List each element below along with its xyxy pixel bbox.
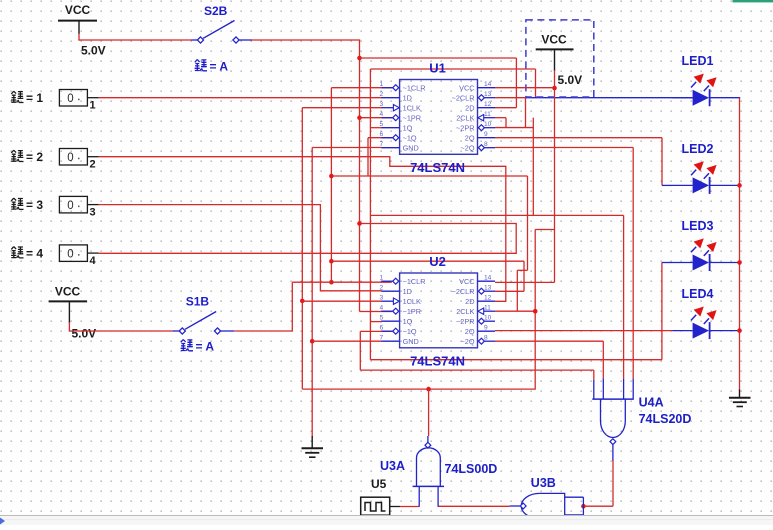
- wire LED3 anode blue: [662, 262, 673, 264]
- wire S2B net vertical: [359, 40, 361, 312]
- wire LED2 drop x662: [661, 138, 663, 186]
- wire U1 pin14 VCC: [495, 87, 555, 89]
- svg-text:~2Q: ~2Q: [461, 337, 475, 346]
- switch S1B: [173, 312, 234, 335]
- wire branch y176 to U2 2CLK route: [331, 175, 527, 177]
- wire into U2 pin13 ~2CLR: [495, 290, 524, 292]
- svg-text:0: 0: [67, 152, 73, 164]
- wire LED column to ground: [739, 98, 741, 391]
- svg-text:4: 4: [380, 111, 384, 118]
- svg-text:14: 14: [484, 81, 492, 88]
- svg-text:2: 2: [380, 285, 384, 292]
- svg-text:LED4: LED4: [682, 287, 714, 301]
- wire LED4 cathode blue: [711, 330, 740, 332]
- wire S1B vertical riser: [291, 282, 293, 331]
- wire to U3B inputs: [583, 505, 613, 507]
- svg-text:6: 6: [380, 131, 384, 138]
- IC U1 74LS74N body: [380, 80, 496, 155]
- junction LED3 cathode: [737, 260, 742, 265]
- wire into U2 pin14 VCC: [495, 281, 555, 283]
- svg-text:= A: = A: [196, 340, 215, 354]
- junction key4 / S2B preset net: [357, 221, 362, 226]
- svg-text:0: 0: [67, 249, 73, 261]
- svg-text:U4A: U4A: [639, 396, 664, 410]
- wire clear-net vertical x331: [330, 88, 332, 283]
- LED3: [673, 238, 717, 271]
- svg-text:5: 5: [380, 315, 384, 322]
- wire U2 pin7 GND: [312, 340, 382, 342]
- svg-text:3: 3: [90, 207, 96, 219]
- LED2: [673, 161, 717, 194]
- wire LED3 net long run: [370, 214, 623, 216]
- svg-text:2: 2: [380, 91, 384, 98]
- svg-text:~1CLR: ~1CLR: [403, 84, 426, 93]
- wire vertical x527: [527, 176, 529, 270]
- wire U4A in2 blue tail: [602, 378, 604, 398]
- wire key3 to U2 pin2 1D: [99, 205, 382, 291]
- key switch 键=1 interactive digital constant: [59, 90, 98, 107]
- wire vertical x524: [523, 261, 525, 291]
- svg-text:0: 0: [67, 200, 73, 212]
- power VCC1 5.0V symbol: [58, 21, 97, 34]
- wire clock net vertical x302: [301, 108, 303, 389]
- NAND gate U3A 74LS00D (points up): [413, 436, 445, 507]
- wire branch y261 to U2 ~2CLR: [331, 260, 524, 262]
- svg-text:13: 13: [484, 91, 492, 98]
- svg-text:LED1: LED1: [682, 54, 714, 68]
- wire vertical x517: [516, 270, 518, 311]
- junction clear net y261: [329, 259, 334, 264]
- wire S2B branch to U1 2D: [360, 57, 517, 59]
- wire x360 down: [359, 331, 361, 370]
- wire S2B to node: [252, 39, 361, 41]
- svg-text:11: 11: [484, 305, 491, 312]
- svg-text:0: 0: [67, 93, 73, 105]
- svg-text:U5: U5: [371, 477, 387, 491]
- svg-text:10: 10: [484, 315, 492, 322]
- svg-text:2CLK: 2CLK: [456, 114, 474, 123]
- junction clock net / U2 pin3: [300, 299, 305, 304]
- svg-text:12: 12: [484, 101, 492, 108]
- junction clear net / U2 pin1: [329, 280, 334, 285]
- svg-text:9: 9: [484, 325, 488, 332]
- svg-text:1: 1: [90, 100, 96, 112]
- wire U5 to U3A input: [400, 506, 420, 508]
- svg-text:~1Q: ~1Q: [403, 134, 417, 143]
- LED4: [673, 307, 717, 340]
- svg-text:1Q: 1Q: [403, 317, 413, 326]
- wire key4 to preset net: [99, 224, 517, 254]
- junction U3B input tie: [581, 504, 586, 509]
- wire into U1 pin12 2D: [495, 107, 516, 109]
- wire vertical x535 down to clock run: [534, 230, 536, 390]
- wire clock net to U3A output: [302, 388, 535, 390]
- svg-text:4: 4: [380, 305, 384, 312]
- svg-text:14: 14: [484, 275, 492, 282]
- wire LED3 column x662: [661, 263, 663, 360]
- svg-text:1: 1: [380, 275, 384, 282]
- key switch 键=4 interactive digital constant: [59, 245, 98, 262]
- wire x633 down to U4A in4: [632, 148, 634, 380]
- junction LED2 cathode: [737, 183, 742, 188]
- svg-text:2: 2: [90, 159, 96, 171]
- svg-text:VCC: VCC: [459, 277, 474, 286]
- key switch 键=3 interactive digital constant: [59, 196, 98, 213]
- wire U1 pin9 2Q to LED2: [495, 137, 662, 139]
- wire into U2 pin11 2CLK: [495, 310, 535, 312]
- junction ground net / U2 pin7: [310, 339, 315, 344]
- svg-text:74LS74N: 74LS74N: [410, 353, 465, 368]
- switch S2B: [192, 21, 253, 44]
- svg-text:6: 6: [380, 325, 384, 332]
- svg-text:~2PR: ~2PR: [456, 124, 474, 133]
- wire into U2 pin3 1CLK: [302, 300, 382, 302]
- NAND gate U3B 74LS00D (points left, inverter-tied): [510, 493, 584, 518]
- wire VCC2 jog: [535, 229, 554, 231]
- wire jog y270: [517, 269, 527, 271]
- wire U4A in1 blue tail: [593, 380, 595, 399]
- svg-text:74LS74N: 74LS74N: [410, 160, 465, 175]
- svg-text:U3B: U3B: [531, 476, 556, 490]
- svg-text:74LS20D: 74LS20D: [639, 412, 692, 426]
- LED1: [673, 74, 717, 107]
- wire vertical x370 Q chain: [369, 69, 371, 360]
- wire to U1 pin4 ~1PR: [360, 117, 392, 119]
- ground symbol (right): [729, 390, 751, 407]
- wire U4A output down: [612, 460, 614, 506]
- wire pin10 row jog: [495, 127, 533, 129]
- svg-text:5.0V: 5.0V: [72, 327, 97, 341]
- svg-text:= 1: = 1: [26, 91, 43, 105]
- wire U3B output to U3A input: [438, 505, 510, 507]
- svg-text:12: 12: [484, 295, 492, 302]
- svg-text:2D: 2D: [465, 297, 474, 306]
- wire VCC1 to S2B: [78, 39, 192, 41]
- junction U3A output / clock net: [426, 387, 431, 392]
- wire ground net vertical: [311, 148, 313, 438]
- svg-text:= A: = A: [210, 60, 229, 74]
- junction S2B net / U1 pin4: [357, 115, 362, 120]
- wire U1 pin7 GND: [312, 147, 382, 149]
- svg-text:~1PR: ~1PR: [403, 307, 421, 316]
- wire U3A output vertical red: [428, 389, 430, 436]
- wire VCC2 down run: [554, 70, 556, 282]
- junction S2B net / 2D branch: [357, 56, 362, 61]
- wire key2 to U2 pin12 2D: [99, 157, 506, 302]
- wire LED1 net drop: [525, 98, 527, 128]
- svg-text:~2CLR: ~2CLR: [452, 94, 475, 103]
- svg-text:S1B: S1B: [186, 295, 210, 309]
- svg-text:LED2: LED2: [682, 142, 714, 156]
- junction LED4 cathode: [737, 328, 742, 333]
- junction VCC2 / U1 pin14: [552, 86, 557, 91]
- svg-text:VCC: VCC: [459, 84, 474, 93]
- svg-text:5: 5: [380, 121, 384, 128]
- svg-text:5.0V: 5.0V: [81, 44, 106, 58]
- svg-text:3: 3: [380, 295, 384, 302]
- wire U1 1Q over-top run: [370, 68, 535, 70]
- svg-text:= 4: = 4: [26, 247, 43, 261]
- wire U4A in4 blue tail: [632, 379, 634, 399]
- wire x594 down: [593, 370, 595, 380]
- svg-text:~1Q: ~1Q: [403, 327, 417, 336]
- svg-text:~2CLR: ~2CLR: [452, 287, 475, 296]
- wire 1Q(U2) run to LED3 column: [370, 359, 662, 361]
- svg-text:2CLK: 2CLK: [456, 307, 474, 316]
- wire VCC3 to S1B: [69, 330, 174, 332]
- scrollbar arrow fragment bottom-left: [0, 518, 5, 525]
- svg-text:S2B: S2B: [204, 4, 228, 18]
- svg-text:= 2: = 2: [26, 150, 43, 164]
- svg-text:VCC: VCC: [55, 285, 81, 299]
- svg-text:10: 10: [484, 121, 492, 128]
- svg-text:1D: 1D: [403, 287, 412, 296]
- svg-text:1Q: 1Q: [403, 124, 413, 133]
- wire U1 pin13 to LED1 red part: [495, 97, 526, 99]
- svg-text:3: 3: [380, 101, 384, 108]
- svg-text:VCC: VCC: [65, 3, 91, 17]
- wire ~1Q(U2) run to U4A in1: [360, 369, 594, 371]
- svg-text:1: 1: [380, 81, 384, 88]
- svg-text:U2: U2: [429, 254, 446, 269]
- svg-text:~1CLR: ~1CLR: [403, 277, 426, 286]
- wire VCC1 stem to S2B: [78, 34, 80, 41]
- power VCC2 5.0V symbol (selected): [536, 49, 574, 71]
- wire into U1 pin5 1Q: [370, 127, 381, 129]
- svg-text:13: 13: [484, 285, 492, 292]
- wire U4A in3 blue tail: [623, 379, 625, 399]
- svg-text:GND: GND: [403, 337, 419, 346]
- svg-text:1CLK: 1CLK: [403, 297, 421, 306]
- svg-text:= 3: = 3: [26, 198, 43, 212]
- wire key1 to U1 pin2 1D: [99, 97, 382, 99]
- svg-text:4: 4: [90, 255, 97, 267]
- wire LED2 anode blue: [662, 184, 673, 186]
- svg-text:VCC: VCC: [541, 33, 567, 47]
- svg-text:8: 8: [484, 141, 488, 148]
- wire vertical to U1 pin12: [515, 58, 517, 108]
- svg-text:1D: 1D: [403, 94, 412, 103]
- wire drop to LED1 net: [535, 69, 537, 97]
- wire into U1 pin6 ~1Q: [368, 137, 392, 139]
- selection box around VCC2: [526, 20, 594, 97]
- teal accent bar top right: [733, 0, 773, 2]
- wire VCC3 stem: [68, 322, 70, 332]
- wire LED1 cathode blue: [711, 97, 741, 99]
- wire into U1 pin3 1CLK: [302, 107, 382, 109]
- wire U1 pin1 ~1CLR: [331, 87, 391, 89]
- wire U2 pin8 ~2Q: [495, 340, 603, 342]
- wire to U2 pin4 ~1PR: [360, 311, 392, 313]
- svg-text:~2PR: ~2PR: [456, 317, 474, 326]
- svg-text:~2Q: ~2Q: [461, 144, 475, 153]
- wire U2 pin6 ~1Q: [360, 330, 392, 332]
- svg-text:2Q: 2Q: [465, 327, 475, 336]
- svg-text:U1: U1: [429, 61, 446, 76]
- bottom scroll strip: [0, 515, 773, 525]
- svg-text:8: 8: [484, 335, 488, 342]
- wire x623 down to U4A in3: [623, 215, 625, 379]
- wire LED3 cathode blue: [711, 262, 740, 264]
- svg-text:5.0V: 5.0V: [558, 73, 583, 87]
- junction x535 / U2 pin11 row: [533, 309, 538, 314]
- svg-text:74LS00D: 74LS00D: [445, 462, 498, 476]
- power VCC3 5.0V symbol: [49, 301, 88, 323]
- NAND gate U4A 74LS20D (points down): [592, 399, 634, 460]
- wire U1 pin11 2CLK: [495, 117, 506, 119]
- ground symbol (left): [302, 436, 324, 457]
- wire vertical x533: [532, 118, 534, 216]
- svg-text:1CLK: 1CLK: [403, 104, 421, 113]
- wire U1 pin8 ~2Q: [495, 147, 633, 149]
- wire U1 pin6 drop: [367, 138, 369, 176]
- wire S1B to U2 pin1 ~1CLR: [292, 281, 392, 283]
- clock source U5: [361, 497, 400, 515]
- svg-text:11: 11: [484, 111, 491, 118]
- junction clear net y176: [329, 174, 334, 179]
- wire LED2 cathode blue: [711, 184, 740, 186]
- svg-text:7: 7: [380, 141, 384, 148]
- wire LED1 anode blue run: [526, 97, 693, 99]
- wire U2 pin9 2Q to LED4: [495, 330, 673, 332]
- wire S1B to riser: [234, 330, 292, 332]
- svg-text:~1PR: ~1PR: [403, 114, 421, 123]
- svg-text:U3A: U3A: [380, 459, 405, 473]
- wire x603 down to U4A in2: [602, 341, 604, 378]
- svg-text:GND: GND: [403, 144, 419, 153]
- svg-text:LED3: LED3: [682, 219, 714, 233]
- svg-text:2D: 2D: [465, 104, 474, 113]
- svg-text:2Q: 2Q: [465, 134, 475, 143]
- IC U2 74LS74N body: [380, 273, 496, 348]
- wire pin11 step down: [505, 118, 507, 128]
- key switch 键=2 interactive digital constant: [59, 149, 98, 166]
- svg-text:9: 9: [484, 131, 488, 138]
- svg-text:7: 7: [380, 335, 384, 342]
- wire U2 pin5 1Q: [370, 321, 381, 323]
